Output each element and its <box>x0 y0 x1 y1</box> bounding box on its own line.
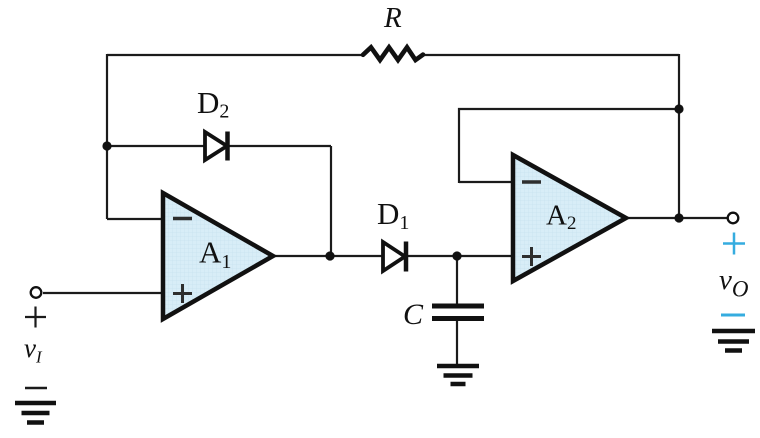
svg-text:R: R <box>383 2 402 34</box>
svg-text:C: C <box>403 298 424 331</box>
